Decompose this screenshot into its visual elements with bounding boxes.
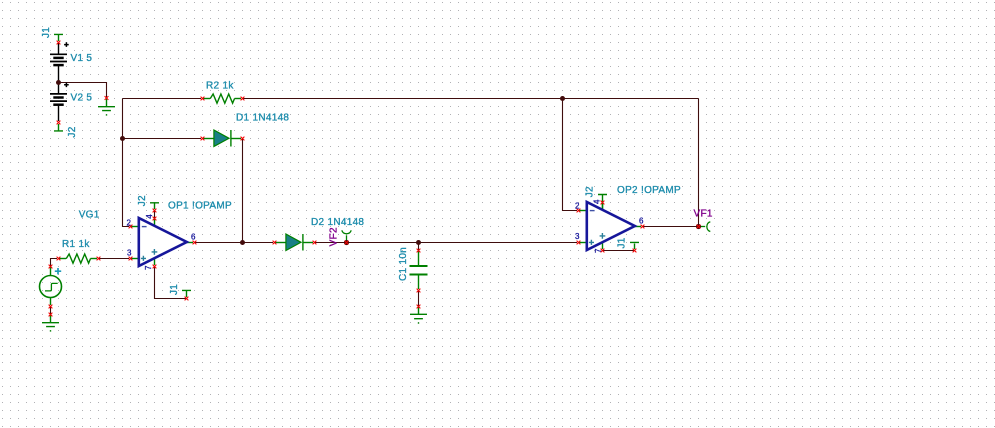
svg-text:R2 1k: R2 1k — [206, 81, 234, 92]
svg-text:VF1: VF1 — [694, 209, 713, 220]
svg-text:J2: J2 — [585, 186, 596, 197]
svg-text:OP1 !OPAMP: OP1 !OPAMP — [168, 200, 232, 211]
svg-text:7: 7 — [594, 248, 603, 253]
svg-text:J1: J1 — [617, 237, 628, 248]
svg-text:7: 7 — [144, 265, 153, 270]
svg-text:J2: J2 — [67, 126, 78, 137]
svg-text:R1 1k: R1 1k — [62, 239, 90, 250]
svg-text:2: 2 — [575, 201, 580, 210]
svg-text:D2 1N4148: D2 1N4148 — [311, 217, 364, 228]
svg-text:4: 4 — [593, 199, 602, 204]
svg-text:V1 5: V1 5 — [71, 53, 93, 64]
svg-text:J1: J1 — [169, 284, 180, 295]
svg-text:3: 3 — [575, 232, 580, 241]
svg-text:6: 6 — [191, 233, 196, 242]
svg-text:6: 6 — [639, 217, 644, 226]
svg-text:D1 1N4148: D1 1N4148 — [236, 113, 289, 124]
svg-text:2: 2 — [127, 219, 132, 228]
svg-text:J2: J2 — [137, 195, 148, 206]
svg-text:VG1: VG1 — [79, 210, 100, 221]
svg-text:VF2: VF2 — [329, 227, 340, 246]
svg-text:4: 4 — [145, 214, 154, 219]
svg-text:OP2 !OPAMP: OP2 !OPAMP — [617, 185, 681, 196]
svg-text:J1: J1 — [41, 27, 52, 38]
svg-text:3: 3 — [127, 249, 132, 258]
svg-text:C1 10n: C1 10n — [398, 247, 409, 281]
svg-text:V2 5: V2 5 — [71, 93, 93, 104]
